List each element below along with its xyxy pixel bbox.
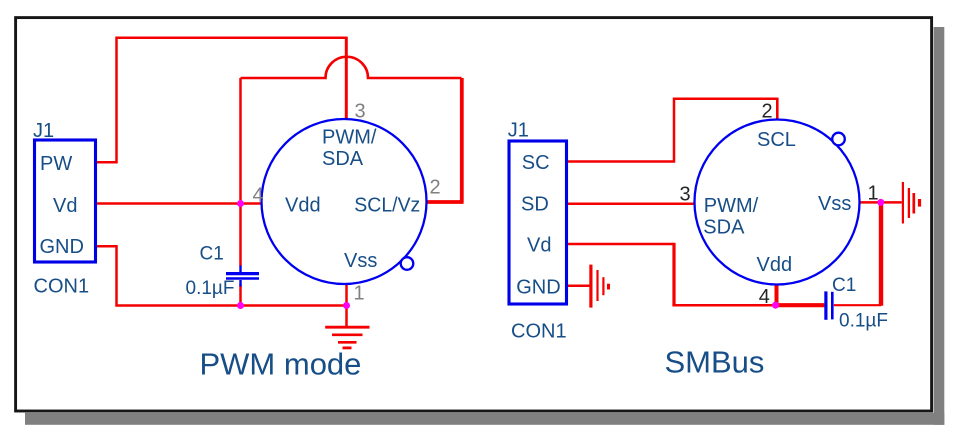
label PWM/ (right U2) bbox=[704, 195, 759, 217]
svg-text:CON1: CON1 bbox=[34, 276, 90, 298]
label SCL/Vz bbox=[354, 194, 420, 216]
svg-text:SDA: SDA bbox=[703, 217, 745, 239]
label Vdd (right U2) bbox=[757, 254, 793, 276]
svg-text:Vdd: Vdd bbox=[285, 194, 321, 216]
label SDA (right U2) bbox=[703, 217, 745, 239]
wire C1 to right riser bbox=[834, 304, 881, 306]
pin name SD bbox=[521, 193, 549, 215]
svg-text:PW: PW bbox=[40, 153, 72, 175]
svg-text:SC: SC bbox=[522, 152, 550, 174]
wire pin2 stub (right) bbox=[776, 98, 779, 120]
svg-text:SD: SD bbox=[521, 193, 549, 215]
svg-text:GND: GND bbox=[40, 236, 84, 258]
label CON1 (right) bbox=[511, 321, 567, 343]
pin number 4 (left) bbox=[253, 184, 264, 206]
svg-text:0.1µF: 0.1µF bbox=[839, 310, 888, 331]
connector J1 (left) box bbox=[35, 140, 96, 262]
bubble on U2 (right) bbox=[832, 133, 845, 146]
svg-text:4: 4 bbox=[759, 286, 770, 308]
pin number 3 (left) bbox=[355, 100, 366, 122]
wire right riser to Vss node (bold) bbox=[879, 202, 883, 305]
label SDA (left U1) bbox=[322, 148, 364, 170]
svg-text:SCL/Vz: SCL/Vz bbox=[354, 194, 420, 216]
label PWM/ (left U1) bbox=[322, 127, 377, 149]
svg-text:Vd: Vd bbox=[53, 195, 77, 217]
wire pin4 stub (right) bbox=[775, 285, 779, 306]
svg-text:CON1: CON1 bbox=[511, 321, 567, 343]
bubble on U1 (left) bbox=[401, 257, 414, 270]
svg-text:1: 1 bbox=[354, 283, 365, 305]
label J1 (right) bbox=[508, 120, 529, 142]
junction dot node A bbox=[237, 200, 244, 207]
junction dot pin4 (right) bbox=[772, 302, 779, 309]
wire node A vertical to C1 top bbox=[239, 78, 242, 266]
wire pin1 stub bbox=[345, 284, 348, 306]
wire Vd to pin4 bbox=[97, 202, 262, 205]
svg-text:4: 4 bbox=[253, 184, 264, 206]
svg-text:2: 2 bbox=[430, 177, 441, 199]
wire SC net: stub, up, top run bbox=[568, 99, 777, 162]
label Vdd (left U1) bbox=[285, 194, 321, 216]
svg-text:SCL: SCL bbox=[757, 129, 796, 151]
label J1 (left) bbox=[33, 120, 54, 142]
value label 0.1uF (left) bbox=[186, 278, 235, 299]
svg-text:Vss: Vss bbox=[818, 193, 851, 215]
drop shadow right bbox=[934, 27, 945, 425]
wire Vd net down to bottom run (right) bbox=[568, 243, 776, 305]
caption SMBus bbox=[665, 345, 765, 380]
label CON1 (left) bbox=[34, 276, 90, 298]
svg-text:Vss: Vss bbox=[344, 250, 377, 272]
value label 0.1uF (right) bbox=[839, 310, 888, 331]
pin number 3 (right) bbox=[680, 184, 691, 206]
junction dot pin1 bbox=[343, 302, 350, 309]
svg-text:J1: J1 bbox=[508, 120, 529, 142]
svg-text:Vd: Vd bbox=[527, 235, 551, 257]
wire Vss pin1 to ground bbox=[860, 201, 902, 204]
svg-text:0.1µF: 0.1µF bbox=[186, 278, 235, 299]
junction dot C1 bottom bbox=[237, 302, 244, 309]
wire C1 bottom to bottom run bbox=[239, 285, 242, 306]
value label C1 (right) bbox=[832, 275, 856, 296]
svg-text:2: 2 bbox=[762, 101, 773, 123]
svg-text:C1: C1 bbox=[200, 243, 224, 264]
svg-text:SDA: SDA bbox=[322, 148, 364, 170]
svg-text:C1: C1 bbox=[832, 275, 856, 296]
svg-text:PWM/: PWM/ bbox=[322, 127, 377, 149]
svg-text:3: 3 bbox=[680, 184, 691, 206]
wire pin4 junction to C1 (bold) bbox=[776, 303, 825, 307]
label Vss (left U1) bbox=[344, 250, 377, 272]
ground GND1 bbox=[325, 306, 369, 348]
pin number 2 (left) bbox=[430, 177, 441, 199]
junction dot Vss (right) bbox=[877, 199, 884, 206]
caption PWM mode bbox=[200, 346, 362, 381]
svg-text:1: 1 bbox=[868, 183, 879, 205]
svg-text:Vdd: Vdd bbox=[757, 254, 793, 276]
wire GND net: stub, down, bottom run bbox=[97, 246, 347, 305]
wire pin3 vertical drop bbox=[345, 37, 348, 119]
capacitor C1 (left) bbox=[226, 266, 259, 287]
svg-text:3: 3 bbox=[355, 100, 366, 122]
drop shadow bottom bbox=[25, 413, 944, 425]
pin name PW bbox=[40, 153, 72, 175]
pin number 4 (right) bbox=[759, 286, 770, 308]
wire pin2 vertical and stub bbox=[427, 78, 464, 202]
capacitor C1 (right) bbox=[826, 291, 832, 319]
pin name Vd (right) bbox=[527, 235, 551, 257]
IC circle U1 (left) bbox=[262, 119, 427, 284]
svg-text:GND: GND bbox=[516, 277, 560, 299]
wire bump net from node A over pin3 wire bbox=[241, 57, 462, 78]
pin name GND (left) bbox=[40, 236, 84, 258]
label Vss (right U2) bbox=[818, 193, 851, 215]
pin number 2 (right) bbox=[762, 101, 773, 123]
IC circle U2 (right) bbox=[695, 120, 860, 285]
svg-text:PWM mode: PWM mode bbox=[200, 346, 362, 381]
ground at Vss (right) bbox=[903, 182, 920, 224]
value label C1 (left) bbox=[200, 243, 224, 264]
svg-text:PWM/: PWM/ bbox=[704, 195, 759, 217]
pin name SC bbox=[522, 152, 550, 174]
label SCL (right U2) bbox=[757, 129, 796, 151]
wire SD to pin3 (right) bbox=[568, 203, 695, 206]
svg-text:SMBus: SMBus bbox=[665, 345, 765, 380]
svg-text:J1: J1 bbox=[33, 120, 54, 142]
wire GND stub (right) bbox=[568, 285, 590, 288]
pin name GND (right) bbox=[516, 277, 560, 299]
pin number 1 (left) bbox=[354, 283, 365, 305]
pin number 1 (right) bbox=[868, 183, 879, 205]
wire PW net: stub, up, top run to pin3 bbox=[97, 38, 346, 163]
connector J1 (right) box bbox=[509, 141, 567, 304]
ground at GND (right) bbox=[591, 265, 609, 308]
pin name Vd (left) bbox=[53, 195, 77, 217]
